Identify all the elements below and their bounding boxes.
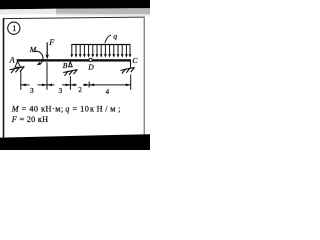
svg-text:B: B xyxy=(63,61,68,70)
svg-text:4: 4 xyxy=(106,87,110,96)
extension line at F xyxy=(46,62,48,90)
svg-text:A: A xyxy=(9,55,16,64)
svg-text:M: M xyxy=(29,45,37,54)
top scan black band xyxy=(0,0,150,9)
force F arrowhead xyxy=(46,55,49,60)
moment M arrowhead xyxy=(37,62,41,65)
support A (pin) triangle xyxy=(15,62,21,68)
dimension arrowheads xyxy=(21,84,131,87)
frame left border xyxy=(3,18,5,138)
svg-text:1: 1 xyxy=(12,24,16,33)
distributed load arrows xyxy=(72,45,130,55)
extension line at C xyxy=(130,75,132,90)
support A ground hatching xyxy=(10,67,25,74)
moment M arc xyxy=(33,51,43,64)
top scan grey shadow band xyxy=(0,9,56,15)
svg-text:q = 10: q = 10 xyxy=(65,105,89,114)
svg-text:D: D xyxy=(87,62,94,71)
force F arrow shaft xyxy=(46,42,48,56)
bottom scan black band xyxy=(0,134,150,150)
frame top border xyxy=(3,17,145,20)
svg-text:F: F xyxy=(48,38,55,47)
frame right border xyxy=(144,17,145,136)
support B ground hatching xyxy=(63,70,77,76)
svg-text:3: 3 xyxy=(30,86,34,95)
svg-text:3: 3 xyxy=(59,86,63,95)
extension line at A xyxy=(20,72,22,90)
label q leader xyxy=(105,35,111,43)
svg-text:M = 40 кН·м;: M = 40 кН·м; xyxy=(11,105,64,114)
distributed load top line xyxy=(71,44,130,45)
hinge D circle xyxy=(89,58,92,61)
support B post xyxy=(69,62,73,67)
variant number circle 1 xyxy=(8,22,20,34)
svg-text:кН/м;: кН/м; xyxy=(90,105,123,114)
svg-text:F = 20 кН: F = 20 кН xyxy=(11,115,49,124)
dimension line xyxy=(21,84,131,86)
extension line at B xyxy=(69,76,71,90)
support C ground hatching xyxy=(121,67,135,73)
support C post xyxy=(130,61,132,67)
svg-text:q: q xyxy=(113,32,117,41)
svg-text:2: 2 xyxy=(78,85,82,94)
extension tick at D xyxy=(88,82,90,88)
beam xyxy=(17,59,131,61)
